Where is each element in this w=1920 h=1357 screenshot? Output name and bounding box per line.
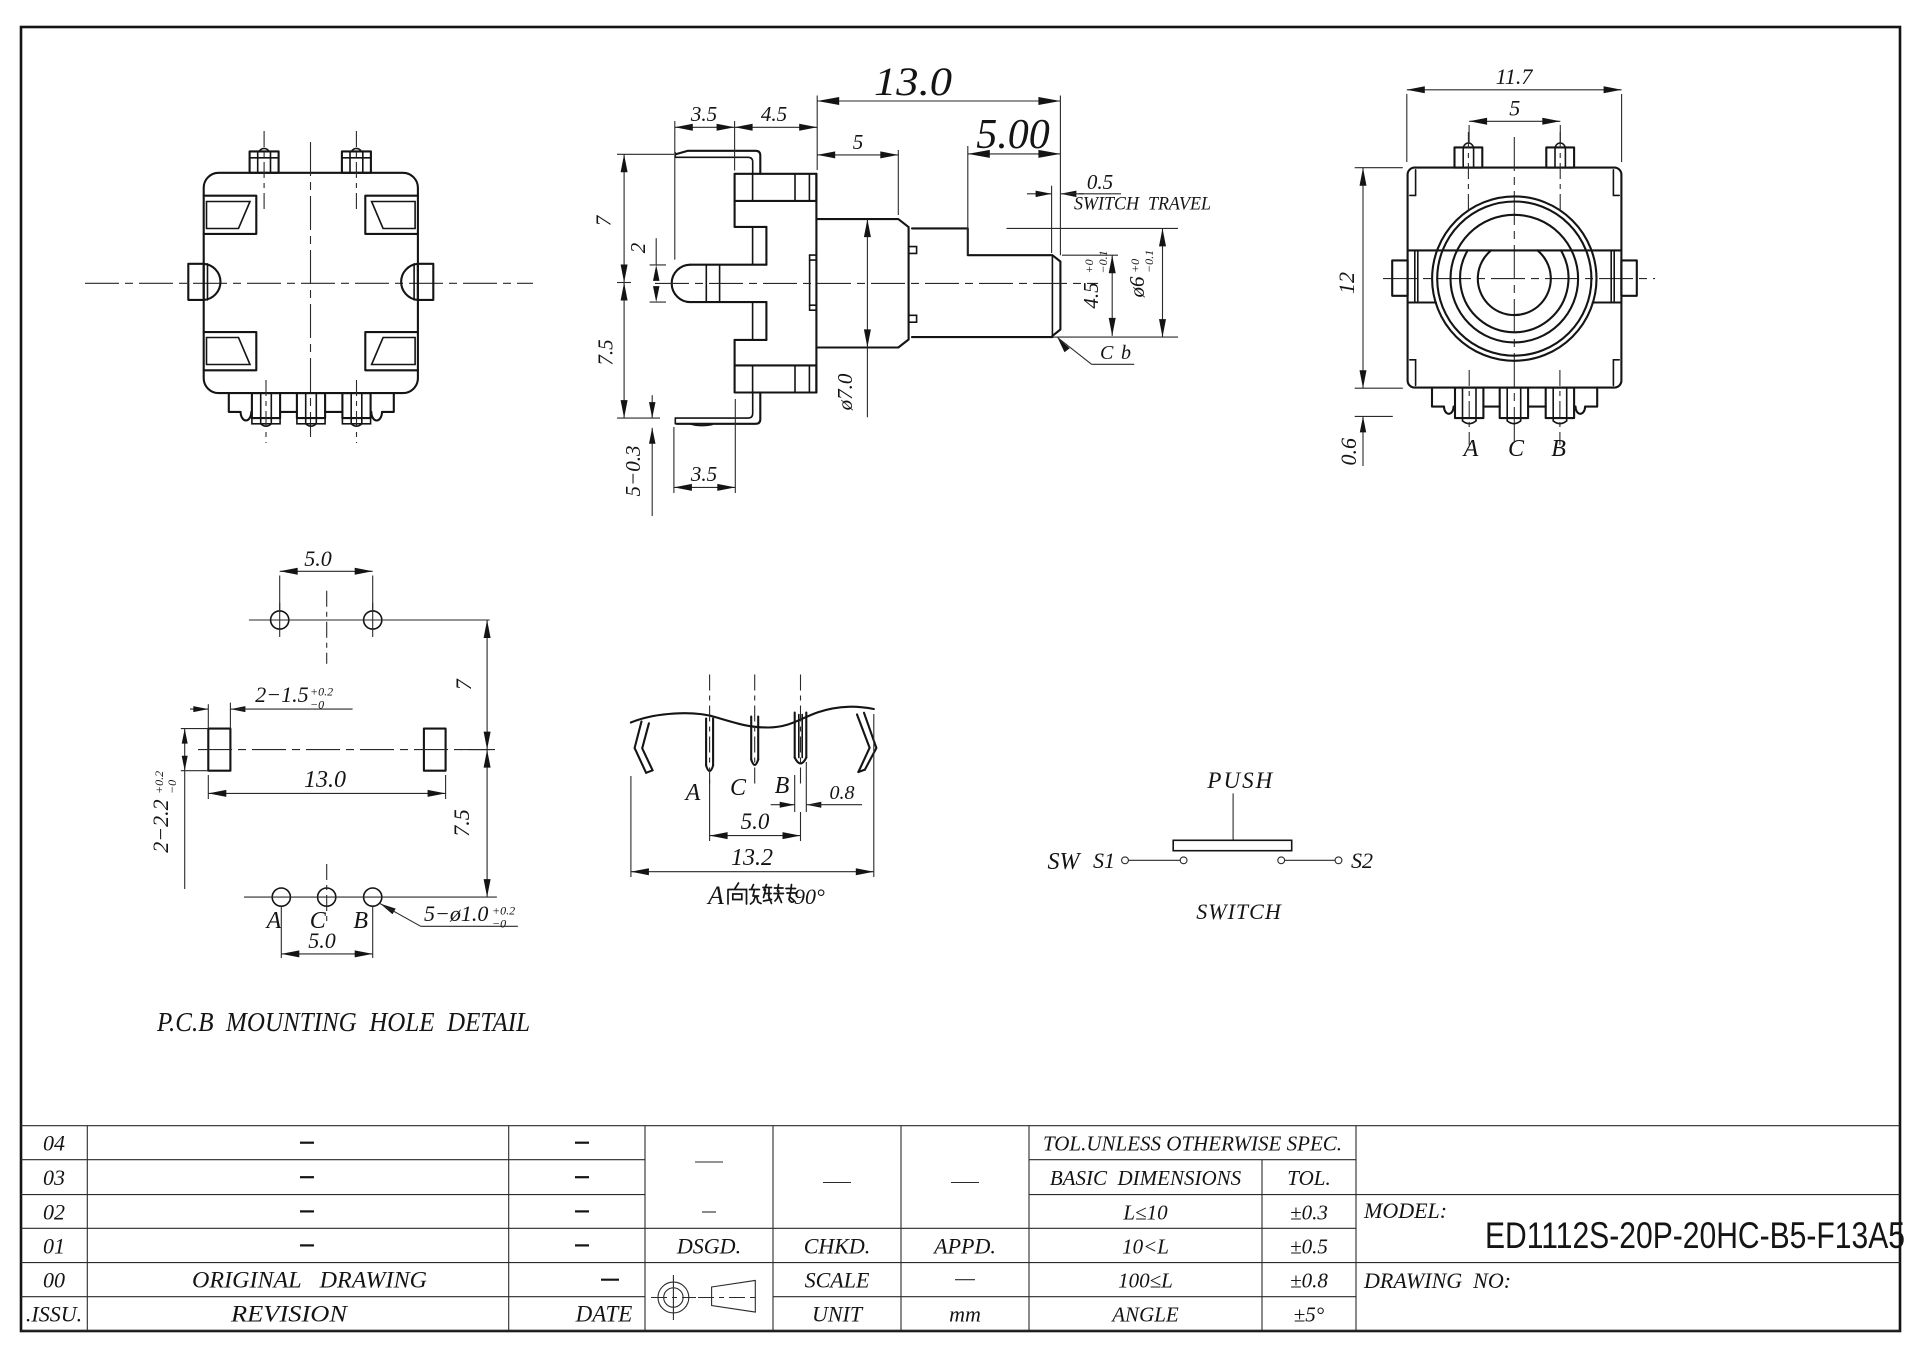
front view terminal pin A — [1455, 370, 1483, 445]
svg-text:P.C.B MOUNTING HOLE DETAIL: P.C.B MOUNTING HOLE DETAIL — [156, 1007, 530, 1037]
svg-text:90°: 90° — [794, 884, 825, 909]
terminal detail: broken body wavy edge — [631, 707, 874, 728]
dimension 7.5 (lower body height) — [594, 283, 661, 419]
dimension dia 7.0 — [833, 219, 871, 417]
side view: knurled bushing (dia 7.0) — [816, 219, 916, 347]
svg-text:+0.2: +0.2 — [310, 685, 333, 699]
corner cutout top-right with trapezoid window — [365, 196, 418, 234]
terminal detail: pin A — [706, 675, 713, 785]
front view left side tab — [1392, 260, 1407, 295]
PCB detail: slot holes row — [198, 729, 490, 771]
svg-text:11.7: 11.7 — [1496, 64, 1534, 89]
svg-text:MODEL:: MODEL: — [1363, 1198, 1447, 1223]
svg-text:C: C — [1100, 342, 1114, 364]
side view: bottom mounting bracket leg — [675, 393, 760, 426]
svg-text:ø7.0: ø7.0 — [833, 373, 857, 411]
svg-text:7: 7 — [592, 214, 616, 226]
svg-text:3.5: 3.5 — [690, 102, 717, 126]
svg-text:−0: −0 — [310, 698, 324, 712]
svg-text:b: b — [1121, 342, 1131, 364]
svg-text:3.5: 3.5 — [690, 462, 717, 486]
svg-text:TOL.UNLESS OTHERWISE SPEC.: TOL.UNLESS OTHERWISE SPEC. — [1043, 1132, 1342, 1156]
center line vertical (bottom view) — [310, 142, 312, 437]
dimension 11.7 — [1407, 64, 1622, 162]
dimension 3.5 (bracket offset) — [675, 102, 735, 260]
svg-text:±0.8: ±0.8 — [1290, 1269, 1328, 1293]
terminal detail dimension 5.0 — [710, 780, 801, 841]
switch contact right circle — [1278, 857, 1285, 864]
switch terminal S2 circle — [1335, 857, 1342, 864]
side view: pushbutton plunger — [672, 265, 767, 302]
svg-text:DRAWING NO:: DRAWING NO: — [1363, 1268, 1511, 1293]
svg-text:SWITCH: SWITCH — [1196, 899, 1282, 924]
svg-text:5: 5 — [853, 130, 864, 154]
terminal detail: left bent leg — [635, 722, 653, 773]
side view: left body profile with notches — [735, 201, 767, 366]
switch pin S1 (bottom view top-left pin) — [250, 131, 279, 213]
front view switch pin S2 (top-right) — [1546, 132, 1574, 215]
dimension 5-0.3 (standoff) — [621, 395, 656, 516]
svg-text:5: 5 — [1509, 96, 1520, 121]
svg-text:S1: S1 — [1093, 848, 1115, 873]
svg-text:13.2: 13.2 — [731, 845, 773, 871]
svg-text:ED1112S-20P-20HC-B5-F13A5: ED1112S-20P-20HC-B5-F13A5 — [1485, 1215, 1905, 1256]
svg-text:UNIT: UNIT — [812, 1302, 864, 1327]
switch pin S2 (bottom view top-right pin) — [342, 131, 371, 213]
front view center lines — [1383, 278, 1655, 280]
terminal detail: pin B — [795, 675, 807, 785]
dimension 2 (plunger) — [626, 238, 666, 302]
title block grid — [21, 1126, 1900, 1331]
front view corner notch top-right — [1613, 170, 1619, 196]
svg-text:DSGD.: DSGD. — [676, 1233, 741, 1258]
waist shelf upper edge and D-flat chord — [1408, 249, 1622, 251]
revision column dashes and texts — [300, 1142, 314, 1144]
side view: top ear tab — [735, 174, 817, 201]
svg-text:APPD.: APPD. — [932, 1233, 996, 1258]
front view: body outline — [1408, 168, 1622, 388]
svg-text:2: 2 — [626, 242, 650, 253]
front view bottom bracket — [1432, 388, 1597, 414]
chkd column — [823, 1182, 851, 1184]
waist shelf lower edges — [1408, 301, 1436, 303]
switch wire S1 — [1128, 859, 1180, 861]
svg-text:C: C — [730, 775, 747, 801]
svg-text:A: A — [684, 780, 701, 806]
switch terminal S1 circle — [1122, 857, 1129, 864]
side view: shaft dia 6 with D-flat and chamfer C b — [912, 228, 1060, 337]
svg-text:5.00: 5.00 — [976, 112, 1050, 158]
svg-text:5.0: 5.0 — [741, 809, 770, 834]
svg-text:SCALE: SCALE — [805, 1268, 870, 1293]
corner cutout bottom-right with trapezoid window — [365, 332, 418, 370]
front view corner notch top-left — [1410, 170, 1416, 196]
dimension 0.5 SWITCH TRAVEL — [1027, 170, 1211, 253]
svg-text:±0.3: ±0.3 — [1290, 1200, 1328, 1224]
svg-text:S2: S2 — [1351, 848, 1373, 873]
dimension 12 (body height) — [1334, 168, 1403, 389]
svg-text:+0.2: +0.2 — [492, 904, 515, 918]
svg-text:7: 7 — [451, 678, 476, 690]
svg-text:SWITCH TRAVEL: SWITCH TRAVEL — [1074, 194, 1211, 215]
svg-text:0.6: 0.6 — [1336, 438, 1361, 466]
svg-text:5.0: 5.0 — [308, 928, 336, 953]
PCB detail dimension 2-2.2 slot height — [148, 729, 208, 889]
PCB detail: terminal holes A C B row — [244, 864, 497, 925]
svg-text:100≤L: 100≤L — [1118, 1269, 1173, 1293]
dimension 5 (pin spacing front) — [1469, 96, 1560, 144]
switch actuator bar — [1173, 840, 1292, 850]
svg-text:SW: SW — [1048, 849, 1082, 875]
svg-text:mm: mm — [949, 1302, 981, 1327]
date column dashes and label — [575, 1142, 589, 1144]
switch actuator stem — [1232, 793, 1234, 840]
dimension dia 6 +0/-0.1 (shaft) — [1007, 228, 1179, 337]
waist inner step lines — [1414, 250, 1416, 302]
PCB detail dimension 5.0 top — [280, 546, 373, 611]
svg-text:12: 12 — [1334, 272, 1359, 294]
svg-text:CHKD.: CHKD. — [804, 1233, 871, 1258]
dimension 0.6 (standoff) — [1336, 416, 1393, 466]
svg-text:.ISSU.: .ISSU. — [26, 1302, 82, 1327]
front view terminal pin C — [1500, 388, 1528, 424]
PCB detail dimension 2-1.5 slot width — [190, 682, 353, 729]
svg-text:±0.5: ±0.5 — [1290, 1234, 1328, 1258]
svg-text:B: B — [353, 908, 368, 934]
svg-text:L≤10: L≤10 — [1122, 1200, 1168, 1224]
terminal pin A (bottom view) — [252, 380, 280, 443]
front view terminal pin B — [1546, 370, 1574, 445]
front view right side tab — [1621, 260, 1636, 295]
svg-text:−0.1: −0.1 — [1142, 250, 1156, 273]
svg-text:ø6: ø6 — [1125, 276, 1149, 299]
corner cutout bottom-left with trapezoid window — [204, 332, 257, 370]
svg-text:+0: +0 — [1082, 259, 1096, 273]
svg-text:2−1.5: 2−1.5 — [255, 682, 308, 707]
side view: center line — [655, 282, 1098, 284]
svg-text:+0: +0 — [1128, 259, 1142, 273]
svg-text:04: 04 — [43, 1131, 65, 1156]
svg-text:03: 03 — [43, 1165, 65, 1190]
front view corner notch bottom-right — [1613, 360, 1619, 386]
svg-text:A: A — [706, 881, 724, 910]
svg-text:A: A — [265, 908, 282, 934]
svg-text:5.0: 5.0 — [304, 546, 332, 571]
right side tab and boss arc — [401, 264, 433, 300]
front view switch pin S1 (top-left) — [1455, 132, 1483, 215]
terminal pin B (bottom view) — [342, 380, 370, 443]
bushing outer ring circles — [1432, 196, 1596, 360]
terminal pin C (bottom view) — [297, 393, 325, 426]
appd column — [951, 1182, 979, 1184]
terminal detail dimension 13.2 — [631, 714, 874, 877]
dimension 7 (upper body height) — [592, 154, 675, 282]
side view: top mounting bracket leg — [675, 151, 760, 174]
dimension 3.5 (bottom leg length) — [674, 399, 735, 493]
svg-text:REVISION: REVISION — [230, 1302, 349, 1327]
svg-text:01: 01 — [43, 1233, 65, 1258]
logo: crosshair circle and cone — [651, 1275, 760, 1320]
dimension 5.00 (flat length) — [968, 112, 1061, 255]
svg-text:13.0: 13.0 — [874, 59, 952, 104]
bushing dia7 circle — [1451, 215, 1579, 343]
PCB detail dimension 7 — [451, 620, 495, 750]
svg-text:BASIC DIMENSIONS: BASIC DIMENSIONS — [1050, 1166, 1242, 1190]
svg-text:10<L: 10<L — [1122, 1234, 1169, 1258]
svg-text:0.8: 0.8 — [830, 782, 855, 804]
svg-text:ANGLE: ANGLE — [1110, 1303, 1179, 1327]
center line horizontal (bottom view) — [85, 282, 533, 284]
svg-text:DATE: DATE — [575, 1302, 633, 1327]
switch wire S2 — [1285, 859, 1336, 861]
dimension 4.5 — [735, 102, 818, 131]
PCB detail leader 5-dia1.0 — [380, 901, 518, 931]
left side tab and boss arc — [188, 264, 220, 300]
svg-text:ORIGINAL DRAWING: ORIGINAL DRAWING — [192, 1268, 427, 1293]
corner cutout top-left with trapezoid window — [204, 196, 257, 234]
svg-text:B: B — [1551, 436, 1566, 462]
dimension 4.5 +0/-0.1 (flat height) — [1062, 250, 1118, 336]
svg-text:5−0.3: 5−0.3 — [621, 446, 645, 497]
caption A xiang xuan zhuan 90deg — [706, 881, 825, 910]
svg-text:0.5: 0.5 — [1087, 170, 1113, 194]
terminal detail: right bent leg — [857, 713, 876, 772]
svg-text:2−2.2: 2−2.2 — [148, 799, 173, 852]
svg-text:TOL.: TOL. — [1287, 1166, 1330, 1190]
terminal detail dimension 0.8 — [771, 762, 862, 812]
dimension 5 (bushing length) — [817, 130, 898, 215]
PCB detail dimension 5.0 bottom — [281, 906, 372, 958]
svg-text:PUSH: PUSH — [1206, 768, 1274, 793]
side view: bottom ear tab — [735, 365, 817, 392]
svg-text:B: B — [775, 773, 790, 799]
svg-text:7.5: 7.5 — [594, 339, 618, 365]
svg-text:A: A — [1462, 436, 1479, 462]
switch contact left circle — [1180, 857, 1187, 864]
shaft bore circle (cut by flat) — [1478, 250, 1551, 315]
terminal detail: pin C — [751, 675, 758, 785]
svg-text:7.5: 7.5 — [449, 809, 474, 837]
svg-text:+0.2: +0.2 — [152, 771, 166, 794]
svg-text:C: C — [1508, 436, 1525, 462]
svg-text:−0: −0 — [165, 780, 179, 794]
front view corner notch bottom-left — [1410, 360, 1416, 386]
svg-text:−0.1: −0.1 — [1096, 250, 1110, 273]
mounting bracket lower edge (bottom view) — [229, 393, 394, 420]
svg-text:5−ø1.0: 5−ø1.0 — [424, 901, 488, 926]
side view: body right face with boss — [810, 174, 817, 393]
svg-text:4.5: 4.5 — [1079, 282, 1103, 308]
svg-text:00: 00 — [43, 1268, 65, 1293]
svg-text:−0: −0 — [492, 917, 506, 931]
dimension 13.0 (shaft length) — [817, 59, 1060, 255]
shaft dia6 circle with D-flat — [1460, 250, 1568, 332]
PCB detail: switch holes S1 S2 row — [249, 591, 490, 664]
svg-text:±5°: ±5° — [1294, 1303, 1325, 1327]
view: encoder bottom view body outline — [204, 173, 418, 393]
PCB detail dimension 7.5 — [449, 750, 491, 898]
dsgd column dashes, label, logo — [695, 1161, 723, 1163]
svg-text:4.5: 4.5 — [761, 102, 787, 126]
svg-text:02: 02 — [43, 1199, 65, 1224]
svg-text:13.0: 13.0 — [304, 767, 346, 793]
chamfer leader C b — [1058, 338, 1135, 365]
PCB detail dimension 13.0 — [208, 767, 445, 799]
